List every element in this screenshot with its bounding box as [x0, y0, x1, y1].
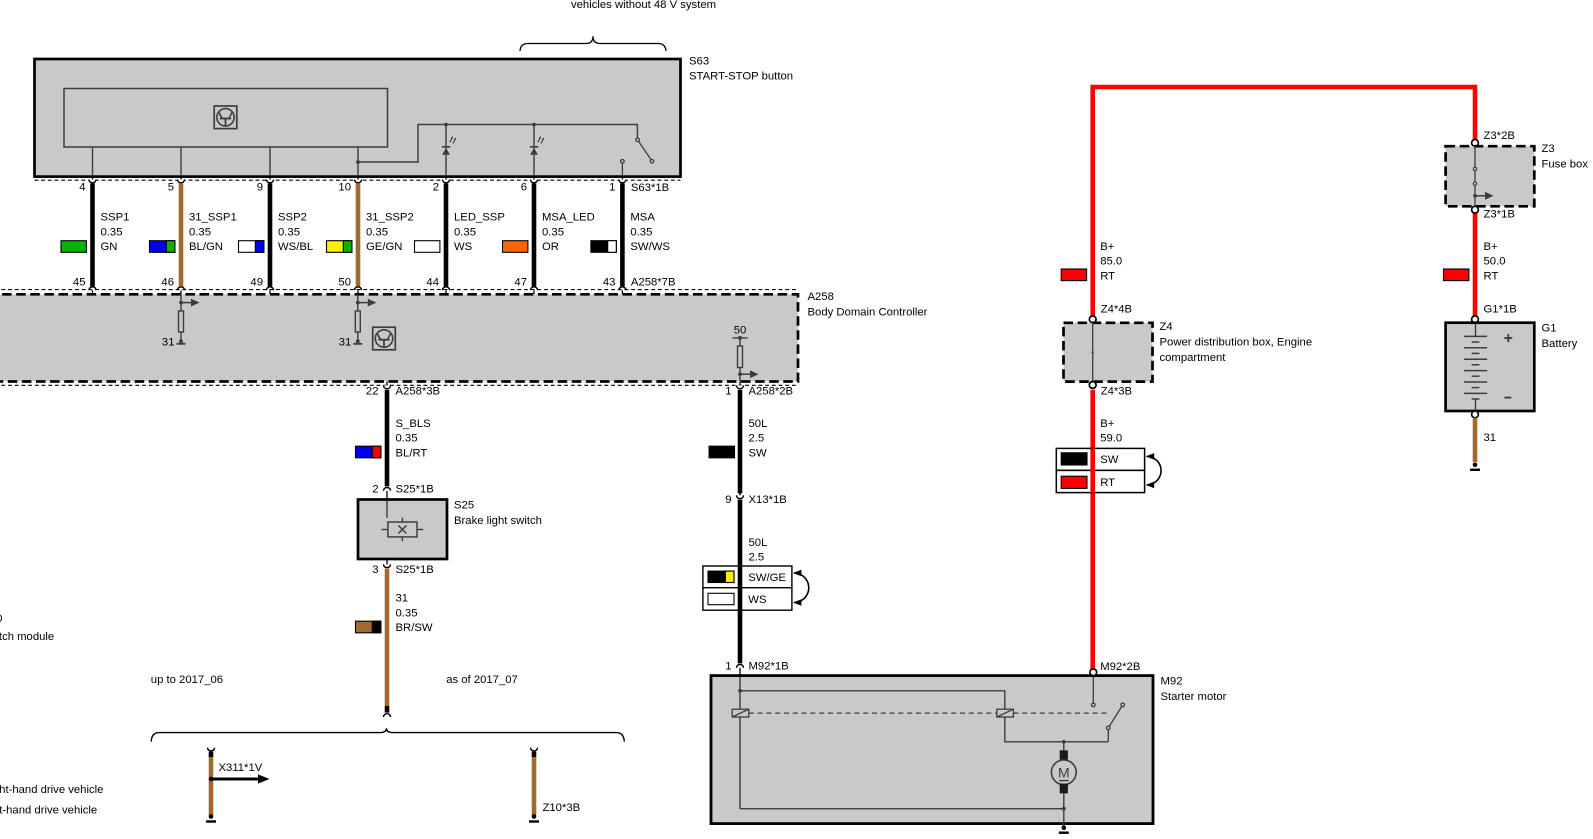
junction LED rail at pin6 — [532, 123, 536, 127]
right variant branch cup — [530, 748, 537, 751]
arrow to X311*1V — [211, 774, 270, 783]
svg-text:compartment: compartment — [1160, 352, 1227, 364]
svg-text:31: 31 — [339, 337, 352, 349]
pin 50 connector cup (A258*7B) — [354, 287, 361, 290]
svg-text:Battery: Battery — [1542, 338, 1578, 350]
swatch SW/GE — [708, 571, 734, 582]
svg-text:MSA_LED: MSA_LED — [542, 211, 595, 223]
pin 47 connector cup (A258*7B) — [530, 287, 537, 290]
svg-text:M92: M92 — [1161, 676, 1183, 688]
wire 50L SW/GE lower — [738, 500, 743, 664]
svg-text:M: M — [1058, 765, 1070, 781]
A258 terminal 50 output wire — [739, 338, 741, 382]
pin 45 male pin into A258 — [92, 290, 94, 294]
relay coil K1 — [732, 709, 749, 717]
wire 31_SSP1 BL/GN — [179, 183, 184, 286]
svg-text:A258: A258 — [808, 291, 834, 303]
svg-text:6: 6 — [521, 181, 527, 193]
svg-text:SW: SW — [1100, 454, 1119, 466]
colour change box SW red wire — [1056, 448, 1144, 470]
arrow term50 — [740, 370, 759, 378]
wire B+ red Z4 to M92 — [1090, 390, 1095, 669]
motor ground wire through box — [1063, 809, 1065, 826]
svg-text:31: 31 — [162, 337, 175, 349]
colour swatch BL/GN — [150, 241, 175, 253]
pin 49 connector cup (A258*7B) — [266, 287, 273, 290]
svg-text:A258*7B: A258*7B — [631, 276, 676, 288]
terminal 50 T-bar — [732, 337, 747, 339]
svg-text:Z4: Z4 — [1160, 321, 1173, 333]
terminal 50 junction dot — [738, 336, 742, 340]
motor M circle — [1051, 760, 1076, 785]
left variant branch cup — [207, 748, 214, 751]
svg-text:RT: RT — [1100, 270, 1115, 282]
S25 internal entry wire — [386, 501, 388, 518]
svg-text:22: 22 — [366, 385, 379, 397]
svg-text:BR/SW: BR/SW — [396, 622, 433, 634]
svg-text:2: 2 — [433, 181, 439, 193]
motor M feed — [1063, 742, 1065, 751]
junction bottom return — [1062, 807, 1066, 811]
steering wheel icon U2 in A258 — [373, 327, 396, 350]
A258 Body Domain Controller box — [0, 294, 798, 381]
dashed connector strip line A258*7B side — [0, 289, 797, 291]
svg-text:A258*2B: A258*2B — [749, 385, 794, 397]
left branch wire brown — [209, 757, 214, 816]
junction pin10 — [356, 160, 360, 164]
svg-text:1: 1 — [725, 661, 731, 673]
svg-text:50: 50 — [734, 324, 747, 336]
svg-text:S_BLS: S_BLS — [396, 418, 432, 430]
svg-text:Body Domain Controller: Body Domain Controller — [808, 307, 928, 319]
motor brush bottom — [1060, 784, 1068, 794]
pin 4 male pin from S63 — [92, 176, 94, 181]
ground symbol 31 — [353, 339, 362, 343]
svg-text:Z4*4B: Z4*4B — [1101, 304, 1132, 316]
M92 ground — [1059, 825, 1069, 832]
pin 43 male pin into A258 — [621, 290, 623, 294]
fuse end cap 2 — [1473, 182, 1476, 185]
switch S63 fixed contact to pin 1 — [621, 160, 625, 177]
pin 2 connector cup (S63*1B) — [442, 180, 449, 183]
svg-text:9: 9 — [257, 181, 263, 193]
colour swatch RT left — [1061, 269, 1086, 281]
brake switch symbol — [382, 518, 424, 542]
svg-text:X13*1B: X13*1B — [749, 494, 787, 506]
terminal M92*2B — [1090, 669, 1097, 676]
svg-text:Z4*3B: Z4*3B — [1101, 386, 1132, 398]
swatch SW red wire box — [1061, 453, 1087, 465]
signal direction arrow — [358, 299, 377, 307]
pin 5 male pin from S63 — [180, 176, 182, 181]
pin 10 connector cup (S63*1B) — [354, 180, 361, 183]
svg-text:10: 10 — [338, 181, 351, 193]
wire pin4 internal — [92, 147, 94, 176]
svg-text:Starter motor: Starter motor — [1161, 691, 1227, 703]
colour change box SW/GE — [703, 566, 792, 588]
wire G1 ground 31 — [1473, 418, 1478, 462]
pin 45 connector cup (A258*7B) — [89, 287, 96, 290]
wire pin9 internal — [269, 147, 271, 176]
svg-text:0.35: 0.35 — [396, 607, 418, 619]
svg-text:Power distribution box, Engine: Power distribution box, Engine — [1160, 337, 1313, 349]
G1 Battery box — [1446, 323, 1535, 411]
svg-text:MSA: MSA — [630, 211, 655, 223]
colour swatch BR/SW — [356, 621, 381, 633]
pin 22 connector cup A258*3B — [383, 385, 390, 388]
colour swatch SW/WS — [591, 241, 616, 253]
colour swatch WS — [415, 241, 440, 253]
Z4 internal dot — [1092, 351, 1094, 353]
pin 4 connector cup (S63*1B) — [89, 180, 96, 183]
pin 44 male pin into A258 — [445, 290, 447, 294]
svg-text:SW/WS: SW/WS — [630, 241, 670, 253]
wire pin5 internal — [180, 147, 182, 176]
pin 9 male pin from S63 — [269, 176, 271, 181]
pin 1 male pin from S63 — [621, 176, 623, 181]
pin 46 male pin into A258 — [180, 290, 182, 294]
right branch wire black tip — [532, 752, 537, 757]
pin 1 connector cup (S63*1B) — [619, 180, 626, 183]
svg-text:0.35: 0.35 — [630, 226, 652, 238]
colour swatch OR — [503, 241, 528, 253]
colour swatch RT right — [1444, 269, 1469, 281]
svg-text:50.0: 50.0 — [1484, 256, 1506, 268]
switch output wire — [1107, 730, 1109, 742]
pin 6 connector cup (S63*1B) — [530, 180, 537, 183]
signal direction arrow — [181, 299, 200, 307]
pin 1 connector cup M92*1B — [736, 665, 743, 668]
junction term50 — [738, 372, 742, 376]
bottom return wire — [740, 808, 1064, 810]
A258 internal pull-down wire at x=357.8 — [357, 294, 359, 340]
svg-text:BL/GN: BL/GN — [189, 241, 223, 253]
svg-text:GE/GN: GE/GN — [366, 241, 402, 253]
svg-text:31: 31 — [1484, 432, 1497, 444]
svg-text:Fuse box: Fuse box — [1542, 159, 1589, 171]
pin 3 connector cup S25*1B — [383, 564, 390, 567]
svg-text:59.0: 59.0 — [1100, 433, 1122, 445]
junction motor feed — [1062, 740, 1066, 744]
svg-text:RT: RT — [1484, 270, 1499, 282]
terminal Z4*3B — [1089, 382, 1096, 389]
svg-text:50L: 50L — [749, 418, 768, 430]
relay actuation dashed link 2 — [1013, 712, 1110, 714]
wire 50L SW upper — [738, 390, 743, 494]
LED V2 (pin 6) — [530, 136, 544, 155]
svg-text:up to 2017_06: up to 2017_06 — [151, 674, 223, 686]
resistor — [355, 311, 360, 332]
colour swatch WS/BL — [239, 241, 264, 253]
terminal G1*1B — [1472, 316, 1479, 323]
relay switch fixed contact — [1092, 703, 1096, 707]
terminal G1 bottom — [1472, 411, 1479, 418]
wire 31 black tip — [385, 706, 390, 713]
svg-text:44: 44 — [426, 276, 439, 288]
pin 9 connector cup X13*1B — [736, 495, 743, 498]
coil1 wire down — [739, 717, 741, 809]
pin 22 male pin — [386, 382, 388, 386]
Z3 Fuse box — [1446, 146, 1535, 206]
svg-text:85.0: 85.0 — [1100, 256, 1122, 268]
junction Z3 — [1473, 194, 1477, 198]
steering wheel icon U1 — [214, 106, 237, 129]
svg-text:1: 1 — [609, 181, 615, 193]
junction LED rail at pin2 — [444, 123, 448, 127]
dashed connector strip line S63*1B — [35, 179, 681, 181]
wire crossing colour boxes — [738, 566, 743, 610]
svg-text:Z3*2B: Z3*2B — [1484, 130, 1515, 142]
pin 46 connector cup (A258*7B) — [177, 287, 184, 290]
svg-text:START-STOP button: START-STOP button — [689, 71, 793, 83]
svg-text:BL/RT: BL/RT — [396, 447, 428, 459]
terminal Z3*2B — [1472, 140, 1479, 147]
wire LED_SSP WS — [444, 183, 449, 286]
svg-text:B+: B+ — [1484, 241, 1499, 253]
svg-text:Z3: Z3 — [1542, 143, 1555, 155]
splice cup above brace — [383, 714, 390, 717]
colour change box WS — [703, 588, 792, 611]
wire to relay coil 2 — [740, 691, 1005, 709]
M92 Starter motor box — [711, 676, 1153, 824]
wire 31 BR/SW — [385, 569, 390, 706]
colour swatch SW — [709, 446, 734, 458]
svg-text:50L: 50L — [749, 537, 768, 549]
swatch WS — [708, 593, 734, 604]
svg-text:WS/BL: WS/BL — [278, 241, 313, 253]
LED V1 (pin 2) — [442, 136, 456, 155]
wire MSA SW/WS — [620, 183, 625, 286]
pin 2 male pin into S25 — [386, 491, 388, 500]
svg-text:0.35: 0.35 — [366, 226, 388, 238]
wire LED6 vertical — [533, 125, 535, 177]
svg-text:SSP2: SSP2 — [278, 211, 307, 223]
switch S63 contact blade — [636, 138, 654, 163]
svg-text:4: 4 — [79, 181, 85, 193]
svg-text:0.35: 0.35 — [542, 226, 564, 238]
M92*2B internal stub — [1092, 677, 1094, 703]
brace over S63 variant region — [520, 36, 666, 51]
junction X311 — [209, 777, 213, 781]
svg-text:1: 1 — [725, 385, 731, 397]
loop arrow red wire colour change — [1146, 453, 1161, 488]
svg-text:S63: S63 — [689, 56, 709, 68]
pin 44 connector cup (A258*7B) — [442, 287, 449, 290]
Z4 internal wire — [1092, 323, 1094, 382]
resistor term50 — [738, 346, 743, 368]
svg-text:45: 45 — [73, 276, 86, 288]
svg-text:31_SSP2: 31_SSP2 — [366, 211, 414, 223]
svg-text:SW: SW — [749, 447, 768, 459]
svg-text:43: 43 — [603, 276, 616, 288]
svg-text:47: 47 — [514, 276, 527, 288]
wire S_BLS BL/RT — [385, 390, 390, 487]
left branch wire black tip — [209, 752, 214, 757]
relay switch blade — [1107, 703, 1125, 730]
colour swatch GN — [61, 241, 86, 253]
pin 1 connector cup A258*2B — [736, 385, 743, 388]
M92 internal wire from pin1 — [739, 677, 741, 709]
pin 1 male pin A258*2B — [739, 382, 741, 386]
svg-text:G1: G1 — [1542, 323, 1557, 335]
junction — [356, 301, 360, 305]
svg-text:GN: GN — [101, 241, 118, 253]
pin 43 connector cup (A258*7B) — [619, 287, 626, 290]
junction M92 pin1 — [738, 689, 742, 693]
svg-text:49: 49 — [250, 276, 263, 288]
battery internals — [1464, 324, 1512, 411]
A258 internal pull-down wire at x=181 — [180, 294, 182, 340]
right branch ground — [529, 814, 539, 821]
ground symbol 31 — [177, 339, 186, 343]
svg-text:Z10*3B: Z10*3B — [543, 802, 581, 814]
svg-text:2: 2 — [372, 484, 378, 496]
colour swatch BL/RT — [356, 446, 381, 458]
colour swatch GE/GN — [327, 241, 352, 253]
svg-text:right-hand drive vehicle: right-hand drive vehicle — [0, 784, 103, 796]
svg-text:M92*2B: M92*2B — [1100, 661, 1140, 673]
motor bottom wire — [1063, 793, 1065, 808]
dashed connector strip line below A258 — [0, 384, 797, 386]
svg-text:M92*1B: M92*1B — [749, 661, 789, 673]
svg-text:2.5: 2.5 — [749, 552, 765, 564]
colour change box RT red wire — [1056, 470, 1144, 492]
wire 31_SSP2 GE/GN — [356, 183, 361, 286]
svg-text:WS: WS — [454, 241, 473, 253]
relay actuation dashed link — [749, 712, 997, 714]
svg-text:50: 50 — [338, 276, 351, 288]
svg-text:0.35: 0.35 — [454, 226, 476, 238]
wire MSA_LED OR — [532, 183, 537, 286]
svg-text:S25: S25 — [454, 500, 474, 512]
svg-text:X311*1V: X311*1V — [219, 762, 263, 774]
svg-text:9: 9 — [725, 494, 731, 506]
wire pin10 branch to LED rail — [358, 125, 637, 163]
pin 47 male pin into A258 — [533, 290, 535, 294]
svg-text:31_SSP1: 31_SSP1 — [189, 211, 237, 223]
pin 3 male pin — [386, 559, 388, 565]
svg-text:A258*3B: A258*3B — [396, 385, 441, 397]
S63 inner module rectangle — [64, 89, 388, 148]
svg-text:WS: WS — [748, 594, 767, 606]
junction — [179, 301, 183, 305]
svg-text:Brake light switch: Brake light switch — [454, 515, 542, 527]
right branch wire brown — [532, 757, 537, 816]
pin 1 male pin into M92 — [739, 668, 741, 676]
pin 9 connector cup (S63*1B) — [266, 180, 273, 183]
svg-text:46: 46 — [161, 276, 174, 288]
svg-text:0.35: 0.35 — [189, 226, 211, 238]
svg-text:31: 31 — [396, 593, 409, 605]
X13 male tip — [739, 493, 741, 495]
svg-text:0.35: 0.35 — [396, 433, 418, 445]
wire pin10 internal — [357, 147, 359, 176]
swatch RT red wire box — [1061, 476, 1087, 488]
svg-text:switch module: switch module — [0, 631, 54, 643]
svg-text:vehicles without 48 V system: vehicles without 48 V system — [571, 0, 716, 11]
svg-text:Z3*1B: Z3*1B — [1484, 209, 1515, 221]
svg-text:S25*1B: S25*1B — [396, 484, 434, 496]
coil2 wire down — [1005, 717, 1108, 742]
svg-text:as of 2017_07: as of 2017_07 — [446, 674, 518, 686]
svg-text:left-hand drive vehicle: left-hand drive vehicle — [0, 805, 97, 817]
svg-text:5: 5 — [168, 181, 174, 193]
terminal Z4*4B — [1089, 316, 1096, 323]
svg-text:LED_SSP: LED_SSP — [454, 211, 505, 223]
pin 10 male pin from S63 — [357, 176, 359, 181]
brace splitting to variants — [151, 728, 624, 741]
wire SSP2 WS/BL — [268, 183, 273, 286]
wire B+ red Z3 to G1 — [1473, 213, 1478, 316]
svg-text:0.35: 0.35 — [278, 226, 300, 238]
loop arrow colour change — [793, 570, 809, 606]
pin 49 male pin into A258 — [269, 290, 271, 294]
svg-text:SW/GE: SW/GE — [748, 572, 786, 584]
svg-text:SSP1: SSP1 — [101, 211, 130, 223]
svg-text:S25*1B: S25*1B — [396, 564, 434, 576]
pin 2 connector cup S25*1B — [383, 488, 390, 491]
Z4 Power distribution box — [1064, 323, 1153, 382]
svg-text:RT: RT — [1100, 477, 1115, 489]
svg-text:B+: B+ — [1100, 241, 1115, 253]
terminal Z3*1B — [1472, 206, 1479, 213]
wire SSP1 GN — [90, 183, 95, 286]
S63 START-STOP button box — [35, 59, 681, 177]
motor brush top — [1060, 750, 1068, 760]
svg-text:G1*1B: G1*1B — [1484, 304, 1517, 316]
pin 6 male pin from S63 — [533, 176, 535, 181]
svg-text:0.35: 0.35 — [101, 226, 123, 238]
svg-text:S63*1B: S63*1B — [631, 182, 669, 194]
svg-text:3: 3 — [372, 564, 378, 576]
arrow Z3 — [1475, 192, 1494, 200]
Z3 internal wire — [1474, 146, 1476, 206]
resistor — [179, 311, 184, 332]
wire B+ red main feed — [1093, 87, 1475, 316]
pin 50 male pin into A258 — [357, 290, 359, 294]
red wire crossing colour boxes — [1090, 448, 1095, 492]
svg-text:0: 0 — [0, 613, 2, 625]
pin 2 male pin from S63 — [445, 176, 447, 181]
svg-text:B+: B+ — [1100, 418, 1115, 430]
G1 ground — [1470, 463, 1480, 470]
svg-text:2.5: 2.5 — [749, 433, 765, 445]
S25 Brake light switch box — [358, 500, 447, 560]
fuse end cap 1 — [1473, 167, 1476, 170]
svg-text:OR: OR — [542, 241, 559, 253]
wire LED2 vertical — [445, 125, 447, 177]
pin 5 connector cup (S63*1B) — [177, 180, 184, 183]
left branch ground — [206, 814, 216, 821]
relay coil K2 — [997, 709, 1014, 717]
